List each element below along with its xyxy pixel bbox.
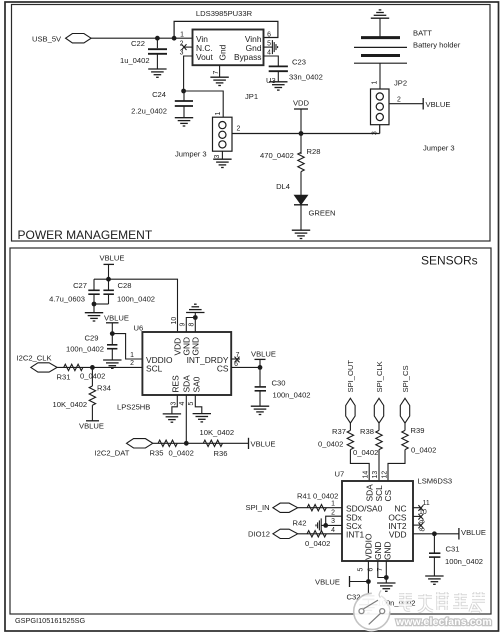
watermark logo circle <box>354 590 390 631</box>
svg-text:R28: R28 <box>307 147 321 156</box>
svg-text:2.2u_0402: 2.2u_0402 <box>131 107 167 116</box>
svg-text:C31: C31 <box>446 545 460 554</box>
svg-text:VBLUE: VBLUE <box>426 100 451 109</box>
svg-text:0_0402: 0_0402 <box>169 449 194 458</box>
svg-text:Jumper 3: Jumper 3 <box>175 150 207 159</box>
svg-text:VDDIO: VDDIO <box>364 533 374 560</box>
svg-text:C24: C24 <box>152 90 166 99</box>
svg-text:3: 3 <box>214 155 221 159</box>
wire I2C2_DAT row <box>153 442 249 444</box>
SENSORs section box <box>10 248 491 614</box>
svg-text:1: 1 <box>180 32 184 39</box>
svg-text:Gnd: Gnd <box>218 44 228 60</box>
svg-text:VBLUE: VBLUE <box>100 254 125 263</box>
svg-text:10K_0402: 10K_0402 <box>200 428 235 437</box>
svg-text:0_0402: 0_0402 <box>305 539 330 548</box>
svg-text:14: 14 <box>363 471 370 479</box>
svg-text:SPI_OUT: SPI_OUT <box>346 360 355 393</box>
capacitor C30 100n_0402 <box>255 367 266 406</box>
svg-text:C23: C23 <box>292 58 306 67</box>
svg-text:SPI_CS: SPI_CS <box>401 365 410 392</box>
wire VBLUE rail to U6 pin 10 <box>94 279 178 332</box>
capacitor C28 100n_0402 <box>103 279 114 304</box>
svg-text:VBLUE: VBLUE <box>251 350 276 359</box>
svg-text:7: 7 <box>377 568 384 572</box>
svg-text:C28: C28 <box>118 281 132 290</box>
svg-text:3: 3 <box>170 402 177 406</box>
svg-text:VBLUE: VBLUE <box>461 528 486 537</box>
capacitor C23 <box>269 66 288 81</box>
svg-text:LDS3985PU33R: LDS3985PU33R <box>196 9 253 18</box>
watermark chinese characters <box>399 592 485 612</box>
power net VBLUE right of R36 <box>248 438 250 449</box>
capacitor C22 <box>148 38 167 69</box>
svg-text:SPI_CLK: SPI_CLK <box>375 361 384 392</box>
capacitor C32 100n_0402 <box>362 582 374 605</box>
svg-text:3: 3 <box>331 518 335 525</box>
capacitor C29 100n_0402 <box>107 334 117 360</box>
svg-text:7: 7 <box>213 71 220 75</box>
svg-text:www.elecfans.com: www.elecfans.com <box>395 617 492 628</box>
svg-text:470_0402: 470_0402 <box>260 151 294 160</box>
svg-text:2: 2 <box>331 509 335 516</box>
svg-text:GSPGI105161525SG: GSPGI105161525SG <box>15 616 86 625</box>
ground flipped above battery <box>371 10 389 18</box>
svg-text:I2C2_DAT: I2C2_DAT <box>95 449 130 458</box>
ground below DL4 <box>292 230 310 238</box>
svg-text:1: 1 <box>215 112 222 116</box>
svg-text:2: 2 <box>237 126 241 133</box>
resistor R34 10K_0402 pull to VBLUE <box>91 367 93 386</box>
svg-text:R38: R38 <box>360 427 374 436</box>
node junction R34 <box>90 365 95 370</box>
svg-text:2: 2 <box>130 360 134 367</box>
svg-text:INT1: INT1 <box>346 530 364 540</box>
svg-text:CS: CS <box>217 363 229 373</box>
svg-text:GND: GND <box>373 541 383 560</box>
svg-text:C30: C30 <box>272 379 286 388</box>
resistor R37 0_0402 <box>349 423 351 430</box>
svg-text:VDD: VDD <box>293 99 310 108</box>
svg-text:1: 1 <box>130 352 134 359</box>
svg-text:9: 9 <box>180 323 187 327</box>
capacitor C27 4.7u_0603 <box>88 279 99 304</box>
svg-text:100n_0402: 100n_0402 <box>66 345 104 354</box>
svg-text:1u_0402: 1u_0402 <box>120 56 150 65</box>
wire R39 to pin 12 <box>388 450 405 481</box>
resistor R31 0_0402 <box>64 364 83 370</box>
wire USB_5V to U3 Vin <box>91 37 192 39</box>
ground below C24 <box>175 118 193 126</box>
svg-text:R42: R42 <box>293 519 307 528</box>
svg-text:BATT: BATT <box>413 29 432 38</box>
wire joining C27 C28 bottoms + node <box>94 303 109 305</box>
svg-text:0_0402: 0_0402 <box>411 446 436 455</box>
capacitor C31 100n_0402 <box>429 534 440 576</box>
svg-text:I2C2_CLK: I2C2_CLK <box>17 354 52 363</box>
svg-text:R39: R39 <box>411 426 425 435</box>
svg-text:6: 6 <box>368 568 375 572</box>
svg-text:5: 5 <box>358 568 365 572</box>
svg-text:LPS25HB: LPS25HB <box>117 403 150 412</box>
svg-text:LSM6DS3: LSM6DS3 <box>418 477 453 486</box>
wire I2C2_CLK to SCL <box>57 366 142 368</box>
watermark www.elecfans.com <box>395 617 492 628</box>
capacitor C24 <box>175 91 193 118</box>
node junction VBLUE rail <box>106 277 111 282</box>
ground below C32 <box>359 605 377 613</box>
node junction at C24 <box>181 89 186 94</box>
svg-text:VBLUE: VBLUE <box>104 314 129 323</box>
svg-text:33n_0402: 33n_0402 <box>289 73 323 82</box>
svg-text:CS: CS <box>383 489 393 501</box>
svg-text:SCL: SCL <box>146 363 163 373</box>
svg-text:DIO12: DIO12 <box>248 530 270 539</box>
svg-text:GREEN: GREEN <box>309 209 336 218</box>
ground below U7 pins 6 7 <box>385 578 387 583</box>
svg-text:1: 1 <box>372 81 379 85</box>
node junction VDD row <box>299 131 304 136</box>
resistor R36 10K_0402 <box>203 440 222 446</box>
svg-text:R36: R36 <box>214 449 228 458</box>
power net VBLUE at JP2 <box>422 98 424 110</box>
svg-text:VDD: VDD <box>389 530 407 540</box>
resistor R28 470_0402 <box>298 152 304 171</box>
svg-text:GND: GND <box>383 541 393 560</box>
svg-text:0_0402: 0_0402 <box>353 448 378 457</box>
svg-text:4.7u_0603: 4.7u_0603 <box>49 295 85 304</box>
battery BATT holder <box>354 38 407 64</box>
svg-text:100n_0402: 100n_0402 <box>273 391 311 400</box>
svg-text:13: 13 <box>372 471 379 479</box>
svg-text:2: 2 <box>397 97 401 104</box>
svg-text:SDA: SDA <box>182 375 192 393</box>
svg-text:VBLUE: VBLUE <box>79 422 104 431</box>
svg-text:5: 5 <box>188 402 195 406</box>
svg-text:10: 10 <box>171 317 178 325</box>
svg-text:R31: R31 <box>57 373 71 382</box>
svg-text:3: 3 <box>180 49 184 56</box>
node junction at C22 <box>155 36 160 41</box>
ground below C29 <box>103 360 121 368</box>
svg-text:100n_0402: 100n_0402 <box>117 295 155 304</box>
resistor R38 0_0402 <box>378 423 380 430</box>
svg-text:POWER MANAGEMENT: POWER MANAGEMENT <box>18 228 153 242</box>
ground below C27 <box>85 313 103 321</box>
svg-text:R35: R35 <box>150 449 164 458</box>
wire R37 to pin 14 <box>350 450 369 481</box>
svg-text:VBLUE: VBLUE <box>251 440 276 449</box>
svg-text:SPI_IN: SPI_IN <box>246 503 270 512</box>
svg-text:VBLUE: VBLUE <box>315 578 340 587</box>
svg-text:U7: U7 <box>335 470 345 479</box>
svg-text:C22: C22 <box>131 39 145 48</box>
resistor R39 0_0402 <box>404 423 406 430</box>
svg-text:SENSORs: SENSORs <box>421 254 478 268</box>
svg-text:Bypass: Bypass <box>234 52 261 62</box>
wire battery to JP2 <box>379 63 381 89</box>
svg-text:JP2: JP2 <box>394 79 407 88</box>
ground below C23 <box>269 82 287 90</box>
svg-text:C27: C27 <box>73 281 87 290</box>
svg-text:5: 5 <box>267 40 271 47</box>
svg-text:8: 8 <box>420 528 427 532</box>
svg-text:3: 3 <box>372 131 379 135</box>
wire top loop Vin to Vinh <box>174 21 278 38</box>
svg-text:10K_0402: 10K_0402 <box>53 400 88 409</box>
svg-text:RES: RES <box>171 375 181 393</box>
svg-text:R37: R37 <box>332 427 346 436</box>
ground below C22 <box>148 69 166 77</box>
resistor R35 0_0402 <box>158 440 177 446</box>
svg-text:R41 0_0402: R41 0_0402 <box>297 492 338 501</box>
svg-text:4: 4 <box>267 49 271 56</box>
svg-text:C29: C29 <box>85 334 99 343</box>
svg-text:4: 4 <box>331 527 335 534</box>
node junction C29 <box>110 331 115 336</box>
power net VBLUE at U7 VDD <box>458 528 460 540</box>
svg-text:GND: GND <box>191 337 201 356</box>
svg-text:1: 1 <box>331 501 335 508</box>
svg-text:JP1: JP1 <box>245 92 258 101</box>
power net VBLUE below R34 <box>86 420 99 422</box>
wire VBLUE to U6 pin 1 VDDIO <box>112 334 142 359</box>
svg-text:4: 4 <box>179 402 186 406</box>
svg-text:U3: U3 <box>266 76 276 85</box>
ground below C31 <box>425 576 443 584</box>
svg-text:Jumper 3: Jumper 3 <box>423 144 455 153</box>
ground flipped above U6 pins 9 8 <box>186 304 204 312</box>
wire R38 to pin 13 <box>378 450 380 481</box>
svg-text:6: 6 <box>267 32 271 39</box>
node junction SDA <box>184 441 189 446</box>
svg-text:12: 12 <box>382 471 389 479</box>
svg-text:Vout: Vout <box>196 52 213 62</box>
svg-text:100n_0402: 100n_0402 <box>445 557 483 566</box>
svg-text:SA0: SA0 <box>192 376 202 392</box>
svg-text:0_0402: 0_0402 <box>318 440 343 449</box>
ground below C30 <box>251 406 269 414</box>
svg-text:Battery holder: Battery holder <box>413 41 461 50</box>
svg-text:USB_5V: USB_5V <box>32 35 62 44</box>
node junction at Vin <box>172 36 177 41</box>
svg-text:R34: R34 <box>97 384 111 393</box>
svg-text:DL4: DL4 <box>276 182 290 191</box>
terminal USB_5V <box>32 34 91 44</box>
svg-text:SDA: SDA <box>365 484 375 502</box>
POWER MANAGEMENT section box <box>12 5 491 242</box>
svg-text:8: 8 <box>189 323 196 327</box>
wire Vout to C24 node and JP1 <box>184 56 224 117</box>
svg-text:11: 11 <box>423 500 430 507</box>
